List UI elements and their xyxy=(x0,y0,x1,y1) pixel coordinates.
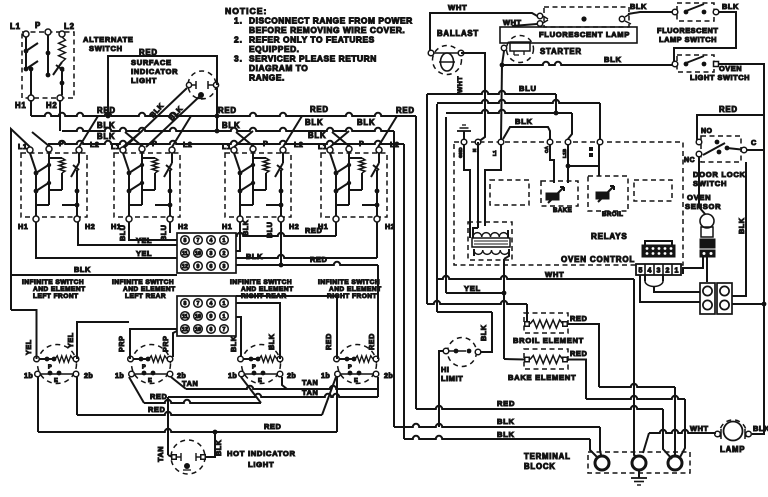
wire BLK bus to oven light switch xyxy=(500,55,672,67)
svg-text:FLUORESCENT LAMP: FLUORESCENT LAMP xyxy=(539,30,630,39)
svg-text:P: P xyxy=(348,365,352,371)
wire RED to surface indicator light xyxy=(106,56,220,133)
svg-text:BLK: BLK xyxy=(74,265,91,274)
svg-text:7: 7 xyxy=(223,327,226,333)
svg-text:BLK: BLK xyxy=(308,131,326,140)
svg-text:BLK: BLK xyxy=(630,2,647,11)
svg-text:OVEN CONTROL: OVEN CONTROL xyxy=(561,255,635,264)
wire alternate switch H2 to BLK bus xyxy=(59,100,61,131)
svg-text:BLK: BLK xyxy=(357,118,375,127)
wire BLK fluorescent lamp to lamp switch xyxy=(628,2,673,14)
svg-text:RED: RED xyxy=(367,333,376,350)
svg-text:HOT INDICATOR: HOT INDICATOR xyxy=(227,449,296,458)
svg-text:STARTER: STARTER xyxy=(540,47,582,56)
svg-text:12: 12 xyxy=(182,264,188,270)
svg-text:7: 7 xyxy=(197,238,200,244)
svg-text:BLK: BLK xyxy=(497,430,515,439)
svg-text:L2: L2 xyxy=(64,22,75,31)
wire BLK element right rear top-left xyxy=(229,317,241,356)
wire BLU H1 left rear to connector xyxy=(118,222,177,241)
svg-text:8: 8 xyxy=(184,238,187,244)
terminal block lug 3 xyxy=(668,456,682,470)
svg-text:LIGHT: LIGHT xyxy=(131,76,157,85)
svg-text:BLU: BLU xyxy=(118,224,127,241)
terminal block lug 2 xyxy=(632,456,646,470)
svg-text:NO: NO xyxy=(701,128,713,135)
wire C down right edge xyxy=(737,150,766,434)
svg-text:L1: L1 xyxy=(492,150,497,156)
wire BLK diagonal surface light to P left rear xyxy=(146,96,200,147)
wire WHT ballast to oven control xyxy=(457,53,485,142)
svg-text:RED: RED xyxy=(310,255,327,264)
wire PRP element left rear top-left xyxy=(117,329,177,359)
broil element xyxy=(513,313,587,345)
svg-text:2b: 2b xyxy=(84,371,93,380)
svg-text:WHT: WHT xyxy=(503,18,522,27)
svg-text:RED: RED xyxy=(310,105,329,114)
svg-text:AND ELEMENT: AND ELEMENT xyxy=(329,286,382,293)
fluorescent lamp (dashed box) xyxy=(537,7,631,39)
coil infinite switch left front xyxy=(59,158,65,173)
wire diagonal feeds L2 left front xyxy=(79,116,98,147)
wire bake broil feeds xyxy=(550,145,599,183)
wire L1 into control xyxy=(485,145,501,226)
BLK bus wire 2 xyxy=(48,131,404,144)
svg-text:E: E xyxy=(354,378,358,384)
svg-text:P: P xyxy=(263,139,268,148)
svg-text:BLK: BLK xyxy=(753,424,768,433)
svg-text:AND ELEMENT: AND ELEMENT xyxy=(33,286,86,293)
wire diagonal feeds L1 left rear xyxy=(123,131,142,147)
svg-text:TAN: TAN xyxy=(302,388,318,397)
svg-text:BALLAST: BALLAST xyxy=(437,29,479,38)
wire oven light switch to door lock C xyxy=(719,64,764,150)
svg-text:BLK: BLK xyxy=(246,252,263,261)
wire YEL feeder xyxy=(445,117,447,293)
svg-text:H1: H1 xyxy=(15,101,27,110)
svg-text:INFINITE SWITCH: INFINITE SWITCH xyxy=(112,279,174,286)
wire WHT lamp to terminal block lug 2 xyxy=(643,430,716,453)
wire P crossover diagonals xyxy=(32,132,349,146)
fluorescent lamp switch (dashed box) xyxy=(657,3,719,44)
svg-text:RANGE.: RANGE. xyxy=(249,73,285,83)
caption infinite switch and element left rear xyxy=(112,279,176,300)
surface element right front xyxy=(321,345,393,385)
infinite switch right rear (dashed box) xyxy=(222,139,303,231)
svg-text:YEL: YEL xyxy=(24,339,33,355)
svg-text:11: 11 xyxy=(182,251,188,257)
svg-text:INFINITE SWITCH: INFINITE SWITCH xyxy=(230,279,292,286)
svg-text:3: 3 xyxy=(210,251,213,257)
wire RED bus drop xyxy=(415,116,417,409)
svg-text:2: 2 xyxy=(666,268,670,275)
wire BLK2 drop xyxy=(403,144,405,439)
wire WHT to starter circuit xyxy=(503,18,537,27)
svg-text:3.: 3. xyxy=(234,54,243,64)
svg-text:DOOR LOCK: DOOR LOCK xyxy=(693,170,746,179)
svg-text:BLK: BLK xyxy=(497,417,515,426)
door lock switch (dashed box) xyxy=(684,105,764,188)
svg-text:EQUIPPED.: EQUIPPED. xyxy=(249,44,300,54)
hi limit thermostat xyxy=(441,338,481,384)
svg-text:WHT: WHT xyxy=(448,3,467,12)
svg-text:L1: L1 xyxy=(10,22,21,31)
relay dashed box right xyxy=(634,180,672,201)
wire to broil element xyxy=(427,301,527,321)
svg-text:H2: H2 xyxy=(85,222,95,231)
svg-text:BLK: BLK xyxy=(267,333,276,350)
svg-text:DISCONNECT RANGE FROM POWER: DISCONNECT RANGE FROM POWER xyxy=(249,16,413,26)
svg-text:NOTICE:: NOTICE: xyxy=(225,6,267,16)
svg-text:BEFORE REMOVING WIRE COVER.: BEFORE REMOVING WIRE COVER. xyxy=(249,25,405,35)
svg-text:P: P xyxy=(142,365,146,371)
wire diagonal feeds L2 right rear xyxy=(283,116,302,147)
svg-text:1b: 1b xyxy=(321,371,330,380)
svg-text:BLK: BLK xyxy=(229,335,238,352)
wire feeder into control terminal B xyxy=(437,100,600,139)
wire left feeder 1 xyxy=(426,94,428,304)
wire L1 bus feeder into control xyxy=(501,65,502,139)
svg-text:11: 11 xyxy=(182,314,188,320)
svg-text:BLU: BLU xyxy=(519,84,537,93)
svg-text:LIGHT SWITCH: LIGHT SWITCH xyxy=(690,73,750,82)
svg-text:9: 9 xyxy=(197,264,200,270)
svg-text:P: P xyxy=(35,21,41,30)
svg-text:BROIL ELEMENT: BROIL ELEMENT xyxy=(513,336,584,345)
wire RED 1b left rear to 1b right rear xyxy=(129,377,261,403)
svg-text:PRP: PRP xyxy=(117,335,126,352)
svg-text:2b: 2b xyxy=(287,371,296,380)
wire BLK H1 right rear to connector xyxy=(236,219,263,261)
wire RED H1 right front to connector xyxy=(236,222,336,236)
svg-text:10: 10 xyxy=(195,314,201,320)
svg-text:FLUORESCENT: FLUORESCENT xyxy=(657,26,718,35)
svg-text:L1B: L1B xyxy=(562,148,567,158)
wire hi limit to BLK run xyxy=(439,351,443,427)
wire TAN hot indicator to 2b right front xyxy=(156,388,378,462)
svg-text:9: 9 xyxy=(210,314,213,320)
svg-text:RED: RED xyxy=(305,226,322,235)
wire door lock C to relay block xyxy=(732,303,764,305)
wire alternate switch H1 to RED bus xyxy=(30,100,32,116)
wire starter to BLK bus xyxy=(502,51,504,65)
svg-text:1: 1 xyxy=(223,301,226,307)
svg-text:5: 5 xyxy=(639,268,643,275)
svg-text:L1: L1 xyxy=(318,142,327,151)
svg-text:BLK: BLK xyxy=(222,121,240,130)
wire YEL element left front top-right xyxy=(66,322,129,359)
svg-text:BLOCK: BLOCK xyxy=(524,462,556,471)
terminal block (dashed box) xyxy=(524,452,690,473)
svg-text:E: E xyxy=(54,378,58,384)
svg-text:BLK: BLK xyxy=(737,217,746,234)
svg-text:H2: H2 xyxy=(178,222,188,231)
surface indicator light DS1 xyxy=(131,48,219,99)
wire GND into control xyxy=(464,145,470,238)
svg-text:H2: H2 xyxy=(289,222,299,231)
svg-text:OVEN: OVEN xyxy=(719,64,742,73)
svg-text:RED: RED xyxy=(148,405,165,414)
svg-text:BLK: BLK xyxy=(97,132,115,141)
svg-text:P: P xyxy=(359,139,364,148)
svg-text:E: E xyxy=(258,378,262,384)
svg-text:RED: RED xyxy=(570,349,587,358)
relay contact block right xyxy=(717,283,732,314)
svg-text:HI: HI xyxy=(441,365,450,374)
svg-text:RED: RED xyxy=(570,314,587,323)
oven sensor xyxy=(685,193,721,257)
surface element left front xyxy=(24,345,93,385)
caption infinite switch and element right front xyxy=(318,279,382,300)
oven lamp xyxy=(690,420,768,454)
wire PRP element left rear top-right xyxy=(161,331,177,357)
oven light switch (dashed box) xyxy=(672,55,750,82)
svg-text:C: C xyxy=(751,138,757,147)
wire RED long run to terminal block xyxy=(416,399,672,459)
svg-text:YEL: YEL xyxy=(66,332,75,348)
infinite switch right front (dashed box) xyxy=(318,139,399,231)
svg-text:INFINITE SWITCH: INFINITE SWITCH xyxy=(318,279,380,286)
svg-text:6: 6 xyxy=(210,264,213,270)
svg-text:1b: 1b xyxy=(24,371,33,380)
alternate switch coil xyxy=(53,37,65,95)
starter xyxy=(501,36,582,63)
clock dashed box xyxy=(490,180,529,205)
svg-text:1: 1 xyxy=(675,268,679,275)
svg-text:AND ELEMENT: AND ELEMENT xyxy=(123,286,176,293)
wire BLK hot indicator to RED wire xyxy=(205,432,223,457)
wire WHT oven control to terminal block xyxy=(437,270,637,457)
wire BLK left edge to connector xyxy=(11,265,177,275)
svg-text:RED: RED xyxy=(97,106,116,115)
wire oven sensor down to relay block xyxy=(683,257,707,282)
wire RED element right front top-right xyxy=(367,265,378,359)
wire RED element right front top-left xyxy=(236,296,337,359)
svg-text:SENSOR: SENSOR xyxy=(685,202,721,211)
svg-text:INDICATOR: INDICATOR xyxy=(131,67,178,76)
svg-text:YEL: YEL xyxy=(464,284,481,293)
wire feeder into control terminal L1B xyxy=(446,110,572,139)
wire diagonal feeds L1 right front xyxy=(330,131,349,147)
svg-text:BAKE: BAKE xyxy=(553,207,572,214)
svg-text:BLK: BLK xyxy=(515,117,533,126)
svg-text:SERVICER PLEASE RETURN: SERVICER PLEASE RETURN xyxy=(249,54,377,64)
svg-text:BLK: BLK xyxy=(305,118,323,127)
svg-text:L1: L1 xyxy=(222,142,231,151)
broil relay xyxy=(588,176,628,218)
wire broil right to lamp junction xyxy=(567,324,675,456)
bake relay xyxy=(541,181,578,214)
svg-text:SWITCH: SWITCH xyxy=(89,44,123,53)
svg-text:AND ELEMENT: AND ELEMENT xyxy=(241,286,294,293)
svg-text:LAMP: LAMP xyxy=(720,445,745,454)
wire RED element 1b left front to 1b right front xyxy=(38,377,337,434)
svg-text:BAKE ELEMENT: BAKE ELEMENT xyxy=(508,373,576,382)
wire YEL H1 left front to connector xyxy=(36,222,177,258)
infinite switch left rear (dashed box) xyxy=(111,139,192,231)
svg-text:P: P xyxy=(59,139,64,148)
terminal strip 5 4 3 2 1 xyxy=(636,264,681,275)
svg-text:LEFT FRONT: LEFT FRONT xyxy=(33,293,79,300)
hot indicator light DS2 xyxy=(171,440,296,474)
svg-text:TAN: TAN xyxy=(182,379,198,388)
ballast xyxy=(428,29,479,75)
relay contact block left xyxy=(700,283,715,314)
svg-text:H2: H2 xyxy=(46,101,58,110)
svg-text:RED: RED xyxy=(396,106,415,115)
svg-text:NC: NC xyxy=(684,157,695,164)
wire WHT top bus xyxy=(430,3,539,53)
svg-text:3: 3 xyxy=(223,264,226,270)
bake element xyxy=(508,349,587,382)
svg-text:P: P xyxy=(252,365,256,371)
wire BLU bus xyxy=(427,84,558,115)
svg-text:BROIL: BROIL xyxy=(602,211,623,218)
infinite switch left front (dashed box) xyxy=(18,139,99,231)
svg-text:PRP: PRP xyxy=(161,335,170,352)
svg-text:1: 1 xyxy=(223,238,226,244)
svg-text:CA: CA xyxy=(544,145,549,153)
wire BLK link L1 to relay terminal xyxy=(503,117,550,139)
wire BLK diagonal surface light to L1 left rear xyxy=(124,88,187,148)
svg-text:12: 12 xyxy=(182,327,188,333)
svg-text:INFINITE SWITCH: INFINITE SWITCH xyxy=(22,279,84,286)
wire bake left to YEL feeder xyxy=(504,358,525,361)
svg-text:RED: RED xyxy=(150,392,167,401)
svg-text:BLK: BLK xyxy=(604,55,622,64)
wire YEL element left front top-left xyxy=(11,310,37,359)
svg-text:3: 3 xyxy=(657,268,661,275)
svg-text:WHT: WHT xyxy=(545,270,564,279)
svg-text:YEL: YEL xyxy=(136,249,152,258)
wire diagonal feeds L2 right front xyxy=(378,116,397,147)
ground symbol oven control xyxy=(457,125,471,139)
wire BLU H2 right rear to connector and RED to right front element xyxy=(236,221,378,267)
svg-text:BLK: BLK xyxy=(479,324,488,341)
surface element left rear xyxy=(115,345,186,385)
wire TAN stub hot indicator left xyxy=(168,455,172,457)
BLK bus wire 1 xyxy=(62,118,394,131)
wire diagonal feeds L2 left rear xyxy=(172,116,191,147)
wires terminal strip loops xyxy=(640,275,700,302)
svg-text:L1: L1 xyxy=(111,142,120,151)
svg-text:SURFACE: SURFACE xyxy=(131,58,172,67)
svg-text:LAMP SWITCH: LAMP SWITCH xyxy=(659,35,717,44)
svg-text:TAN: TAN xyxy=(156,446,165,462)
wire BLK1 drop xyxy=(393,131,395,427)
svg-text:P: P xyxy=(48,365,52,371)
svg-text:LIMIT: LIMIT xyxy=(441,374,463,383)
svg-text:WHT: WHT xyxy=(457,76,464,93)
caption infinite switch and element left front xyxy=(22,279,86,300)
svg-text:DIAGRAM TO: DIAGRAM TO xyxy=(249,63,308,73)
svg-text:N: N xyxy=(472,148,477,152)
svg-text:WHT: WHT xyxy=(690,424,709,433)
wire H2 right front to connector xyxy=(236,222,377,258)
control connector block xyxy=(642,241,675,257)
svg-text:6: 6 xyxy=(210,327,213,333)
svg-text:4: 4 xyxy=(648,268,652,275)
wire bake right down to terminal block xyxy=(567,360,685,460)
svg-text:ALTERNATE: ALTERNATE xyxy=(83,35,134,44)
wire BLK element right rear top-right xyxy=(236,303,280,359)
svg-text:10: 10 xyxy=(195,327,201,333)
svg-text:1.: 1. xyxy=(234,16,243,26)
svg-text:RELAYS: RELAYS xyxy=(591,232,628,241)
wire BLK run 1 xyxy=(394,417,601,455)
notice text block xyxy=(225,6,413,83)
connector block upper xyxy=(177,233,236,273)
svg-text:BLK: BLK xyxy=(97,121,115,130)
wire BLU H2 left rear down xyxy=(159,222,170,241)
svg-text:TAN: TAN xyxy=(302,378,318,387)
svg-text:2.: 2. xyxy=(234,35,243,45)
wire RED 2b left front to 1b right front xyxy=(77,377,336,415)
svg-text:LIGHT: LIGHT xyxy=(248,460,274,469)
wire BLK lamp switch to oven light switch xyxy=(674,2,739,61)
svg-text:L2: L2 xyxy=(294,140,303,149)
svg-text:E: E xyxy=(148,378,152,384)
svg-text:RED: RED xyxy=(497,399,515,408)
wire BLK feed to relay block xyxy=(732,162,746,296)
wire YEL to bake element xyxy=(446,284,504,293)
ground symbol terminal block xyxy=(631,470,647,485)
svg-text:1b: 1b xyxy=(115,371,124,380)
connector block lower xyxy=(177,296,236,336)
svg-text:REFER ONLY TO FEATURES: REFER ONLY TO FEATURES xyxy=(249,35,375,45)
RED bus wire xyxy=(31,105,416,116)
alternate switch SW1 (dashed box) xyxy=(10,21,134,110)
svg-text:2: 2 xyxy=(223,251,226,257)
wire YEL H2 left front to connector xyxy=(78,222,177,245)
transformer T1 xyxy=(468,222,512,260)
svg-text:RED: RED xyxy=(719,105,738,114)
svg-text:H1: H1 xyxy=(222,222,232,231)
terminal block lug 1 xyxy=(595,456,609,470)
svg-text:2b: 2b xyxy=(384,371,393,380)
wire diagonal L1 left front to left edge xyxy=(11,129,30,310)
svg-text:4: 4 xyxy=(210,238,213,244)
wire transformer secondary down xyxy=(502,259,507,359)
svg-text:1b: 1b xyxy=(228,371,237,380)
wire diagonal feeds L1 right rear xyxy=(234,131,253,147)
svg-text:GND: GND xyxy=(458,147,463,158)
svg-text:BLK: BLK xyxy=(722,2,739,11)
svg-text:H1: H1 xyxy=(18,222,28,231)
svg-text:RED: RED xyxy=(324,333,333,350)
svg-text:TERMINAL: TERMINAL xyxy=(524,452,571,461)
wire NC to oven sensor xyxy=(699,157,705,214)
oven control terminals xyxy=(458,139,603,158)
oven control (dashed box) xyxy=(454,142,683,265)
surface element right rear xyxy=(228,345,296,385)
svg-text:P: P xyxy=(152,139,157,148)
svg-text:4: 4 xyxy=(210,301,213,307)
wire N to transformer xyxy=(477,142,479,228)
svg-text:1: 1 xyxy=(223,314,226,320)
svg-text:RED: RED xyxy=(264,422,281,431)
svg-text:L2: L2 xyxy=(90,140,99,149)
svg-text:BLU: BLU xyxy=(159,224,168,241)
wire BLK run 2 xyxy=(404,430,598,458)
wire to hi limit xyxy=(437,312,492,352)
wire TAN 2b left rear to 2b right front xyxy=(171,377,378,397)
caption infinite switch and element right rear xyxy=(230,279,294,300)
svg-text:BLK: BLK xyxy=(214,439,223,456)
svg-text:7: 7 xyxy=(197,301,200,307)
svg-text:10: 10 xyxy=(195,251,201,257)
svg-text:RED: RED xyxy=(218,106,237,115)
